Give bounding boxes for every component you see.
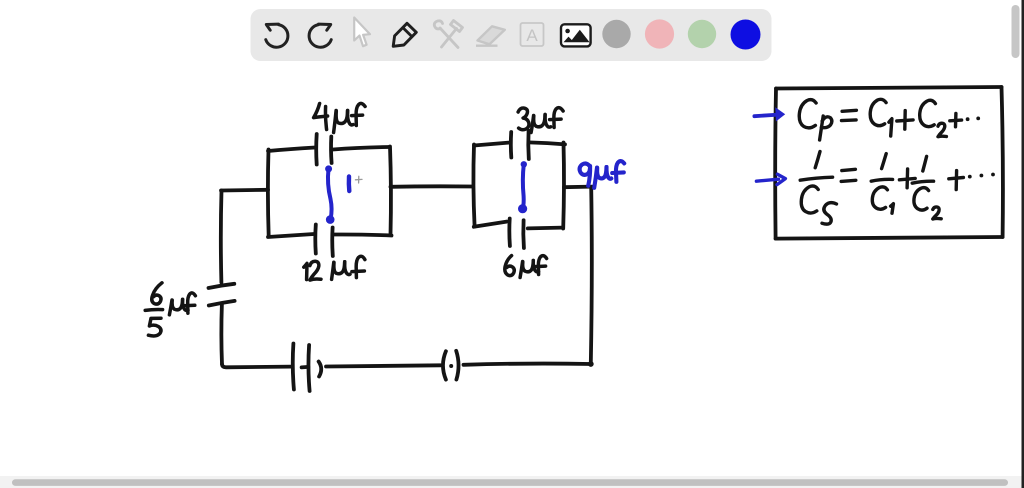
label 6/5 fraction bar: [145, 308, 162, 312]
formula Cp letter C: [799, 100, 816, 128]
text tool icon (disabled): [521, 23, 544, 46]
formula plus 3: [899, 178, 915, 179]
formula C1: [870, 99, 886, 125]
wire bottom right segment: [464, 364, 591, 365]
image icon: [561, 24, 591, 46]
label 12uF letter F: [356, 256, 365, 277]
formula equals 1: [842, 110, 856, 111]
capacitor 6uF plate a: [507, 219, 511, 247]
color swatch blue (selected): [731, 20, 761, 50]
label 3uF mu: [531, 116, 534, 133]
undo icon: [266, 24, 288, 47]
battery plate 2: [308, 345, 309, 391]
junction dot bottom right: [588, 361, 594, 367]
formula 1/C2 numerator: [923, 156, 927, 171]
wire bottom middle segment: [326, 365, 441, 366]
label 6uF letter F: [538, 256, 546, 275]
scrollbar bottom thumb: [12, 479, 1008, 486]
formula 1/C1 bar: [871, 179, 892, 181]
formula 1/C1 subscript 1: [891, 204, 894, 214]
capacitor 6/5uF plate a: [209, 284, 235, 288]
pen icon: [393, 23, 416, 46]
redo icon: [309, 24, 331, 47]
label 12uF digit 1: [304, 263, 307, 279]
label 6/5 digit 6: [152, 283, 162, 304]
formula 1/Cs numerator 1: [815, 152, 820, 168]
formula 1/C2 subscript 2: [933, 207, 941, 219]
wire stub left of left block: [221, 188, 268, 192]
formula line2 dots: [968, 175, 972, 179]
lamp close paren: [456, 351, 458, 380]
formula equals 2: [842, 169, 856, 170]
wire left vertical upper: [219, 191, 223, 283]
polarity tick blue I: [347, 177, 352, 192]
formula plus 4: [949, 178, 964, 179]
battery connector: [302, 365, 309, 369]
label 12uF mu: [332, 262, 334, 279]
capacitor 4uF plate b: [329, 137, 333, 164]
wire right vertical: [591, 187, 592, 364]
cursor icon (disabled): [354, 18, 370, 47]
capacitor 12uF plate a: [313, 225, 317, 254]
arrow blue 2: [756, 174, 785, 184]
wire left block top-right: [333, 147, 389, 150]
lamp open paren: [443, 351, 446, 379]
formula plus 1: [897, 120, 913, 121]
label 6uF mu: [520, 262, 523, 278]
window right border: [1022, 0, 1024, 488]
wire left vertical lower: [219, 304, 223, 365]
battery short arc: [319, 362, 322, 377]
formula 1/Cs letter C: [801, 186, 818, 213]
svg-text:A: A: [526, 26, 538, 45]
capacitor 3uF plate a: [509, 132, 513, 158]
scrollbar right thumb: [1012, 5, 1020, 58]
label 3uF letter F: [554, 108, 563, 128]
scrollbar bottom track: [0, 476, 1022, 488]
wire left block right edge: [388, 147, 393, 236]
label 6/5 mu: [169, 300, 172, 315]
wire left block left edge: [266, 150, 271, 237]
label 4uF letter F: [356, 103, 365, 125]
formula 1/C2 bar: [912, 181, 933, 183]
lamp center dot: [449, 364, 453, 368]
wire stub right of right block: [564, 185, 592, 189]
battery plate long: [293, 344, 294, 390]
label 6uF digit 6: [505, 256, 514, 276]
formula 1/Cs bar: [800, 177, 832, 180]
node marker blue stroke left block: [328, 169, 332, 219]
formula 1/C2 letter C: [914, 188, 929, 210]
formula plus 2 small: [950, 118, 962, 122]
wire left block bottom-left: [268, 234, 314, 237]
formula box border: [775, 87, 1003, 239]
wire between blocks: [391, 184, 474, 188]
capacitor 6/5uF plate b: [209, 301, 235, 306]
wire left block bottom-right: [334, 234, 392, 235]
label 6/5 letter F: [188, 293, 196, 313]
label 6/5 digit 5: [148, 318, 161, 336]
formula C2: [920, 100, 936, 126]
arrow blue 1: [754, 115, 778, 117]
wire right block top-left: [474, 143, 509, 146]
wire right block left edge: [473, 145, 474, 227]
label 9uF blue: [580, 161, 625, 188]
color swatch green: [688, 20, 716, 48]
label 3uF digit 3: [518, 108, 529, 130]
capacitor 6uF plate b: [521, 220, 525, 248]
wire right block top-right: [529, 142, 566, 144]
wire right block bottom-right: [528, 226, 562, 231]
formula line1 dots: [966, 117, 970, 121]
polarity plus sign gray: [355, 176, 362, 183]
capacitor 4uF plate a: [314, 134, 318, 165]
wire left block top-left: [268, 148, 315, 152]
node marker blue stroke right block: [521, 164, 526, 209]
formula 1/C1 letter C: [872, 187, 887, 209]
wire right block right edge: [561, 143, 566, 229]
color swatch gray: [602, 20, 630, 48]
capacitor 12uF plate b: [330, 228, 334, 257]
formula Cp subscript p: [820, 116, 824, 140]
label 12uF digit 2: [310, 261, 321, 280]
toolbar background: [251, 9, 772, 61]
color swatch pink: [645, 19, 674, 48]
wire bottom left segment: [222, 364, 291, 367]
tools icon (disabled): [434, 21, 462, 48]
wire right block bottom-left: [474, 222, 507, 227]
formula 1/C1 numerator: [882, 154, 887, 169]
formula 1/Cs subscript S: [822, 203, 837, 225]
capacitor 3uF plate b: [526, 131, 530, 160]
label 4uF mu: [334, 111, 337, 133]
label 4uF digit 4: [314, 104, 328, 118]
eraser icon (disabled): [476, 26, 505, 45]
